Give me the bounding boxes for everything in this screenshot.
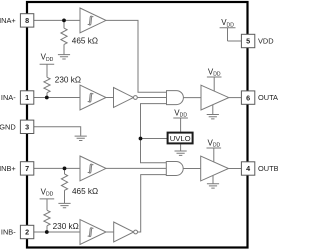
wire AND A output to buffer A — [183, 97, 201, 99]
schmitt trigger A2 (INA-) — [80, 85, 106, 110]
junction node (INB- / 230k B) — [45, 230, 49, 234]
svg-text:3: 3 — [25, 123, 29, 132]
wire schmitt A1 output to AND A top input — [106, 20, 167, 92]
svg-text:2: 2 — [25, 228, 29, 237]
inverter B bubble — [134, 230, 138, 234]
ground (465k B) — [58, 203, 70, 207]
wire VDD supply to pin5 — [228, 40, 242, 42]
resistor 465 kΩ (channel A) — [61, 28, 67, 44]
inverter A (INA-) — [114, 88, 134, 108]
hysteresis glyph B1 — [88, 164, 94, 173]
wire inverter A output to AND A middle input — [137, 97, 166, 99]
output buffer A — [201, 85, 229, 110]
svg-text:OUTB: OUTB — [258, 164, 278, 173]
wire schmitt A2 to inverter A — [106, 97, 114, 99]
svg-text:1: 1 — [25, 93, 29, 102]
svg-text:230 kΩ: 230 kΩ — [55, 76, 81, 85]
wire INA+ pin8 to schmitt A1 — [34, 19, 80, 21]
wire INA- pin1 to schmitt A2 — [34, 97, 80, 99]
svg-text:465 kΩ: 465 kΩ — [72, 37, 98, 46]
svg-text:230 kΩ: 230 kΩ — [53, 222, 79, 231]
svg-text:GND: GND — [0, 122, 16, 131]
wire resistor A to ground — [63, 44, 65, 54]
wire AND B output to buffer B — [183, 168, 201, 170]
svg-text:INB-: INB- — [1, 228, 16, 237]
output buffer B — [201, 156, 229, 181]
hysteresis glyph B2 — [88, 228, 94, 237]
svg-text:INA-: INA- — [1, 93, 16, 102]
svg-text:5: 5 — [246, 37, 250, 46]
wire INB+ pin7 to schmitt B1 — [34, 167, 80, 169]
AND gate B — [166, 162, 183, 176]
ground (UVLO) — [175, 144, 187, 155]
wire inverter B output to AND B bottom input — [138, 175, 167, 232]
wire resistor 230k B to INB- node — [46, 226, 48, 232]
svg-text:7: 7 — [25, 164, 29, 173]
svg-text:8: 8 — [25, 16, 29, 25]
wire resistor 230k A to INA- node — [46, 93, 48, 98]
junction node (INB+ / 465k B) — [63, 167, 67, 171]
wire 465k B from node to resistor — [64, 168, 66, 174]
pin 5 box — [241, 34, 254, 47]
hysteresis glyph A1 — [88, 16, 94, 25]
svg-text:UVLO: UVLO — [170, 134, 191, 143]
wire 465k A from node to resistor — [63, 20, 65, 28]
ground (buffer B) — [207, 175, 219, 188]
VDD supply bar (pin 5) — [220, 28, 236, 41]
svg-text:VDD: VDD — [258, 37, 274, 46]
ground (GND pin) — [75, 136, 87, 140]
VDD supply bar (buffer A) — [207, 77, 222, 91]
wire schmitt B1 output to AND B middle input — [106, 167, 166, 169]
ground (buffer A) — [207, 105, 219, 119]
inverter B (INB-) — [114, 222, 134, 242]
wire GND pin3 to ground symbol — [34, 127, 81, 136]
pin 1 box — [20, 91, 33, 104]
UVLO net vertical wire (AND A bottom to AND B top) — [141, 104, 167, 163]
VDD supply bar (buffer B) — [207, 148, 222, 162]
resistor 230 kΩ (channel B) — [44, 210, 50, 225]
IC outer boundary box — [27, 2, 248, 248]
resistor 465 kΩ (channel B) — [61, 174, 67, 190]
svg-text:INB+: INB+ — [0, 164, 16, 173]
schmitt trigger B1 (INB+) — [80, 156, 106, 181]
wire buffer B output to OUTB pin4 — [229, 168, 242, 170]
svg-text:6: 6 — [246, 93, 250, 102]
pin 8 box — [20, 14, 33, 27]
wire buffer A output to OUTA pin6 — [229, 97, 242, 99]
svg-text:4: 4 — [246, 164, 250, 173]
svg-text:OUTA: OUTA — [258, 93, 278, 102]
svg-text:465 kΩ: 465 kΩ — [72, 187, 98, 196]
junction node (UVLO net) — [139, 137, 143, 141]
VDD supply bar (230k B) — [40, 199, 55, 210]
pin 4 box — [241, 162, 254, 175]
schmitt trigger B2 (INB-) — [80, 220, 106, 245]
pin 3 box — [20, 120, 33, 133]
junction node (INA- / 230k A) — [45, 96, 49, 100]
wire INB- pin2 to schmitt B2 — [34, 231, 80, 233]
VDD supply bar (230k A) — [40, 64, 55, 77]
ground (465k A) — [58, 55, 70, 59]
AND gate A — [167, 91, 184, 105]
pin 2 box — [20, 225, 33, 238]
VDD supply bar (UVLO) — [173, 118, 188, 132]
schmitt trigger A1 (INA+) — [80, 8, 106, 33]
svg-text:INA+: INA+ — [0, 16, 16, 25]
UVLO block U1 — [168, 133, 193, 144]
junction node (INA+ / 465k A) — [62, 19, 66, 23]
wire UVLO output to net — [141, 138, 168, 140]
wire schmitt B2 to inverter B — [106, 231, 114, 233]
pin 7 box — [20, 162, 33, 175]
resistor 230 kΩ (channel A) — [44, 77, 50, 92]
hysteresis glyph A2 — [88, 93, 94, 102]
inverter A bubble — [134, 96, 138, 100]
wire resistor B to ground — [64, 190, 66, 203]
pin 6 box — [241, 91, 254, 104]
